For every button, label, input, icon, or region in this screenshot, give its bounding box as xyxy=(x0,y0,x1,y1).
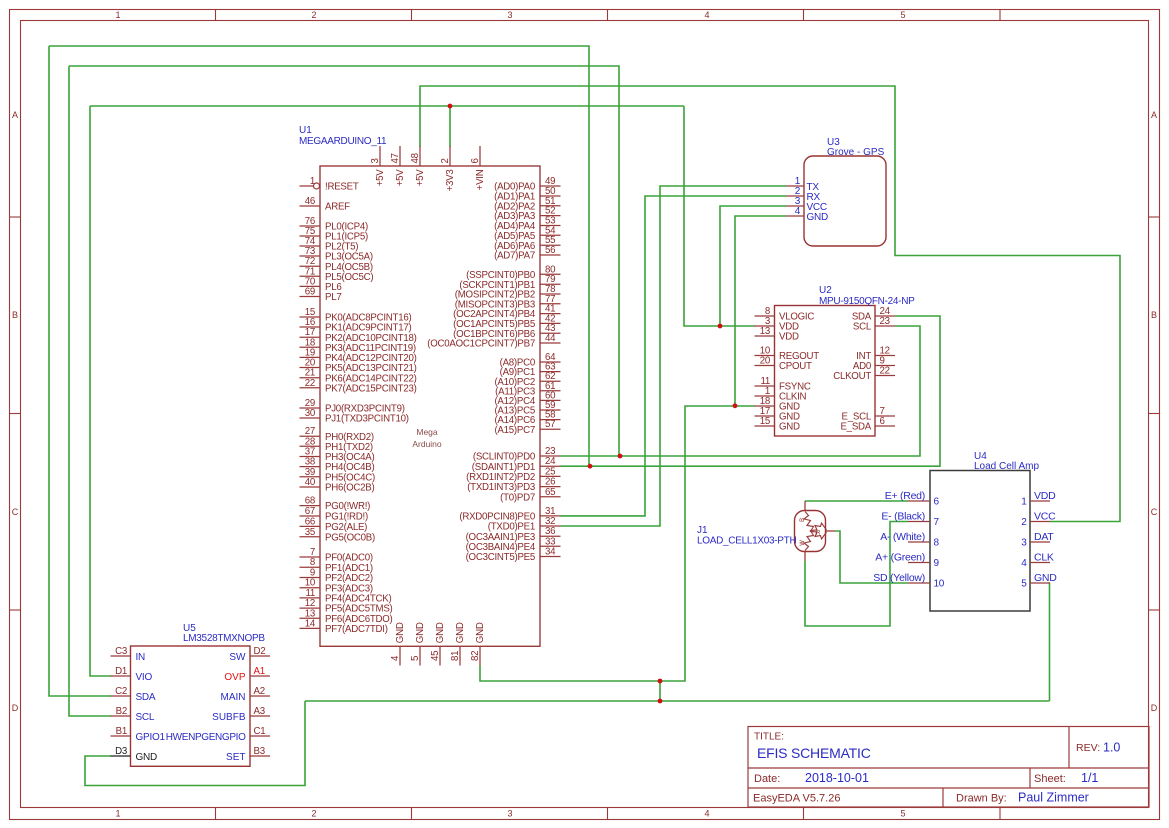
svg-text:66: 66 xyxy=(305,516,315,527)
svg-text:23: 23 xyxy=(880,316,890,327)
U3 pin 4 GND xyxy=(786,215,804,217)
svg-text:Load Cell Amp: Load Cell Amp xyxy=(974,461,1039,472)
U1 bottom pin 5 GND xyxy=(419,646,421,665)
U5 pin A2 MAIN xyxy=(250,695,270,697)
wire U1 pin82 GND xyxy=(480,666,660,682)
wire +3V3 to U2 VDD xyxy=(684,106,755,326)
U1 pin 73 PL3(OC5A) xyxy=(300,255,321,257)
svg-text:PL7: PL7 xyxy=(325,292,342,303)
wire net SDA rail xyxy=(49,46,589,466)
U2 pin 22 CLKOUT xyxy=(875,375,895,377)
svg-text:65: 65 xyxy=(545,487,555,498)
svg-text:45: 45 xyxy=(430,651,441,661)
U1 pin 9 PF2(ADC2) xyxy=(300,577,321,579)
U1 pin 8 PF1(ADC1) xyxy=(300,566,321,568)
svg-text:+3V3: +3V3 xyxy=(445,170,456,192)
U1 pin 28 PH1(TXD2) xyxy=(300,445,321,447)
U4 pin 8 A- (White) xyxy=(908,541,930,543)
svg-text:PG2(ALE): PG2(ALE) xyxy=(325,522,367,533)
regulator U5 LM3528TMXNOPB body xyxy=(131,646,251,766)
U1 pin 43 (OC1BPCINT6)PB6 xyxy=(540,332,561,334)
svg-text:C: C xyxy=(12,507,19,517)
svg-text:6: 6 xyxy=(470,158,481,163)
svg-text:VDD: VDD xyxy=(779,332,799,343)
U1 pin 72 PL4(OC5B) xyxy=(300,265,321,267)
wire SDA to U5 xyxy=(49,46,111,696)
U1 pin 75 PL1(ICP5) xyxy=(300,235,321,237)
svg-text:3: 3 xyxy=(370,158,381,163)
U1 pin 69 PL7 xyxy=(300,296,321,298)
U4 pin 2 VCC xyxy=(1030,521,1050,523)
svg-text:5: 5 xyxy=(900,10,905,20)
svg-text:PG1(!RD!): PG1(!RD!) xyxy=(325,512,368,523)
module U4 Load Cell Amp body xyxy=(930,471,1030,612)
svg-text:68: 68 xyxy=(305,496,315,507)
svg-text:4: 4 xyxy=(1021,558,1027,569)
svg-text:(OC3CINT5)PE5: (OC3CINT5)PE5 xyxy=(466,552,535,563)
wire net +5V xyxy=(420,86,1120,522)
U1 bottom pin 45 GND xyxy=(439,646,441,665)
U1 bottom pin 4 GND xyxy=(399,646,401,665)
svg-text:CLK: CLK xyxy=(1034,551,1054,563)
U1 pin 54 (AD5)PA5 xyxy=(540,234,561,236)
svg-text:4: 4 xyxy=(795,206,801,217)
U2 pin 1 CLKIN xyxy=(755,395,775,397)
J1 strain gauge zigzags xyxy=(804,512,827,540)
svg-text:PG0(!WR!): PG0(!WR!) xyxy=(325,501,370,512)
U1 pin 77 (MISOPCINT3)PB3 xyxy=(540,303,561,305)
svg-text:D3: D3 xyxy=(115,746,127,757)
svg-text:C1: C1 xyxy=(254,726,266,737)
junction dots xyxy=(448,104,453,109)
svg-text:A: A xyxy=(1151,110,1157,120)
svg-text:35: 35 xyxy=(305,527,315,538)
U1 pin 15 PK0(ADC8PCINT16) xyxy=(300,316,321,318)
svg-text:+VIN: +VIN xyxy=(475,169,486,190)
svg-text:U1: U1 xyxy=(299,125,312,136)
U1 pin 58 (A14)PC6 xyxy=(540,419,561,421)
U1 top pin 6 +VIN xyxy=(479,146,481,166)
U2 pin 7 E_SCL xyxy=(875,415,895,417)
U1 pin 65 (T0)PD7 xyxy=(540,496,561,498)
svg-text:SCL: SCL xyxy=(136,712,155,723)
svg-text:VDD: VDD xyxy=(1034,490,1056,502)
svg-text:D1: D1 xyxy=(115,666,127,677)
svg-text:Arduino: Arduino xyxy=(412,439,442,449)
wire +3V3 to U5 VIO xyxy=(90,106,111,676)
U1 pin 78 (MOSIPCINT2)PB2 xyxy=(540,293,561,295)
svg-text:CLKOUT: CLKOUT xyxy=(833,371,871,382)
wire +3V3 to U1 pin2 xyxy=(449,106,451,147)
svg-text:6: 6 xyxy=(880,416,885,427)
svg-text:57: 57 xyxy=(545,419,555,430)
svg-text:Mega: Mega xyxy=(416,427,438,437)
svg-text:82: 82 xyxy=(470,651,481,661)
U1 top pin 3 +5V xyxy=(379,146,381,166)
U3 pin 1 TX xyxy=(786,185,804,187)
U3 pin 2 RX xyxy=(786,195,804,197)
svg-text:GND: GND xyxy=(136,752,158,763)
op-amp U2 MPU-9150QFN-24-NP body xyxy=(775,306,876,437)
svg-text:Date:: Date: xyxy=(754,773,780,785)
svg-text:CPOUT: CPOUT xyxy=(779,361,812,372)
wire U3 RX to U1 PE0 xyxy=(561,196,787,516)
U1 pin 20 PK5(ADC13PCINT21) xyxy=(300,367,321,369)
U1 pin 52 (AD3)PA3 xyxy=(540,215,561,217)
svg-text:B: B xyxy=(12,310,18,320)
svg-text:Grove - GPS: Grove - GPS xyxy=(827,147,885,158)
svg-text:7: 7 xyxy=(934,517,940,528)
svg-text:D: D xyxy=(1151,703,1158,713)
svg-text:3: 3 xyxy=(507,10,512,20)
U5 pin D3 GND xyxy=(111,755,131,757)
U1 pin 64 (A8)PC0 xyxy=(540,361,561,363)
U1 pin 32 (TXD0)PE1 xyxy=(540,525,561,527)
U1 pin 16 PK1(ADC9PCINT17) xyxy=(300,326,321,328)
op-amp U1 MEGAARDUINO_11 body xyxy=(320,166,540,646)
svg-text:13: 13 xyxy=(760,326,770,337)
svg-text:Paul Zimmer: Paul Zimmer xyxy=(1018,791,1089,805)
svg-text:4: 4 xyxy=(704,809,709,819)
U5 pin B2 SCL xyxy=(111,715,131,717)
U1 pin 41 (OC2APCINT4)PB4 xyxy=(540,313,561,315)
svg-text:1: 1 xyxy=(1021,497,1027,508)
U1 pin 29 PJ0(RXD3PCINT9) xyxy=(300,407,321,409)
svg-text:OVP: OVP xyxy=(224,672,245,683)
wire U3 VCC to +3V3 xyxy=(720,206,786,326)
U1 pin 25 (RXD1INT2)PD2 xyxy=(540,475,561,477)
U5 pin B1 GPIO1 xyxy=(111,735,131,737)
U1 pin 22 PK7(ADC15PCINT23) xyxy=(300,387,321,389)
U1 pin 71 PL5(OC5C) xyxy=(300,275,321,277)
title block xyxy=(748,727,1149,808)
U1 pin 46 AREF xyxy=(300,205,321,207)
U1 pin 13 PF6(ADC6TDO) xyxy=(300,617,321,619)
svg-text:20: 20 xyxy=(760,356,771,367)
svg-text:69: 69 xyxy=(305,287,315,298)
svg-text:1: 1 xyxy=(115,10,120,20)
U1 pin 39 PH5(OC4C) xyxy=(300,476,321,478)
U5 pin C3 IN xyxy=(111,655,131,657)
U1 top pin 48 +5V xyxy=(419,146,421,166)
svg-text:5: 5 xyxy=(900,809,905,819)
U2 pin 12 INT xyxy=(875,355,895,357)
svg-text:J1: J1 xyxy=(697,525,708,536)
svg-text:GPIO1: GPIO1 xyxy=(136,732,166,743)
U1 pin 19 PK4(ADC12PCINT20) xyxy=(300,356,321,358)
svg-text:GND: GND xyxy=(435,622,446,643)
U1 pin 63 (A9)PC1 xyxy=(540,371,561,373)
J1 pin stubs xyxy=(804,501,806,511)
U1 pin 79 (SCKPCINT1)PB1 xyxy=(540,283,561,285)
U2 pin 3 VDD xyxy=(755,325,775,327)
svg-text:+5V: +5V xyxy=(395,169,406,187)
svg-text:34: 34 xyxy=(545,547,556,558)
U1 pin 51 (AD2)PA2 xyxy=(540,205,561,207)
svg-text:REV:: REV: xyxy=(1076,742,1100,754)
svg-text:(T0)PD7: (T0)PD7 xyxy=(500,492,535,503)
svg-text:LOAD_CELL1X03-PTH: LOAD_CELL1X03-PTH xyxy=(697,536,796,547)
U2 pin 18 GND xyxy=(755,405,775,407)
U3 pin 3 VCC xyxy=(786,205,804,207)
svg-text:15: 15 xyxy=(760,416,770,427)
U1 pin 14 PF7(ADC7TDI) xyxy=(300,627,321,629)
svg-text:30: 30 xyxy=(305,408,316,419)
svg-text:A- (White): A- (White) xyxy=(880,531,925,543)
U4 pin 9 A+ (Green) xyxy=(908,562,930,564)
U1 pin 40 PH6(OC2B) xyxy=(300,486,321,488)
svg-text:A+ (Green): A+ (Green) xyxy=(875,551,925,563)
svg-text:(OC0AOC1CPCINT7)PB7: (OC0AOC1CPCINT7)PB7 xyxy=(427,339,535,350)
U1 pin 33 (OC3BAIN4)PE4 xyxy=(540,545,561,547)
svg-text:(A15)PC7: (A15)PC7 xyxy=(494,425,535,436)
U1 pin 68 PG0(!WR!) xyxy=(300,505,321,507)
svg-text:C2: C2 xyxy=(115,686,127,697)
U1 pin 42 (OC1APCINT5)PB5 xyxy=(540,322,561,324)
svg-text:LM3528TMXNOPB: LM3528TMXNOPB xyxy=(183,633,265,644)
svg-text:67: 67 xyxy=(305,506,315,517)
svg-text:SDA: SDA xyxy=(136,692,156,703)
wire GND to U5 xyxy=(85,701,305,786)
svg-text:Drawn By:: Drawn By: xyxy=(956,793,1007,805)
svg-text:PF7(ADC7TDI): PF7(ADC7TDI) xyxy=(325,624,388,635)
U5 pin D2 SW xyxy=(250,655,270,657)
svg-text:DAT: DAT xyxy=(1034,531,1054,543)
U5 pin B3 SET xyxy=(250,755,270,757)
U1 pin 23 (SCLINT0)PD0 xyxy=(540,455,561,457)
svg-text:22: 22 xyxy=(305,378,315,389)
svg-text:4: 4 xyxy=(704,10,709,20)
svg-text:SUBFB: SUBFB xyxy=(212,712,246,723)
svg-text:PH6(OC2B): PH6(OC2B) xyxy=(325,483,374,494)
U1 pin 70 PL6 xyxy=(300,285,321,287)
U1 pin 35 PG5(OC0B) xyxy=(300,536,321,538)
U1 pin 44 (OC0AOC1CPCINT7)PB7 xyxy=(540,342,561,344)
U1 bottom pin 82 GND xyxy=(479,646,481,665)
svg-text:3: 3 xyxy=(1021,538,1027,549)
svg-text:40: 40 xyxy=(305,477,316,488)
svg-text:GND: GND xyxy=(415,622,426,643)
U4 pin 3 DAT xyxy=(1030,541,1050,543)
svg-text:46: 46 xyxy=(305,196,315,207)
svg-text:10: 10 xyxy=(934,579,945,590)
U1 top pin 47 +5V xyxy=(399,146,401,166)
U5 pin A1 OVP xyxy=(250,675,270,677)
U5 pin A3 SUBFB xyxy=(250,715,270,717)
U1 pin 36 (OC3AAIN1)PE3 xyxy=(540,535,561,537)
U1 pin 34 (OC3CINT5)PE5 xyxy=(540,556,561,558)
svg-text:A3: A3 xyxy=(254,706,265,717)
svg-text:1/1: 1/1 xyxy=(1081,771,1098,785)
svg-text:3: 3 xyxy=(507,809,512,819)
svg-text:22: 22 xyxy=(880,366,890,377)
U4 pin 5 GND xyxy=(1030,582,1050,584)
svg-text:8: 8 xyxy=(934,538,940,549)
U4 pin 7 E- (Black) xyxy=(908,521,930,523)
wire U2 GND to rail xyxy=(660,406,755,681)
svg-text:HWENPGENGPIO: HWENPGENGPIO xyxy=(166,732,246,743)
svg-text:47: 47 xyxy=(390,153,401,163)
svg-text:1: 1 xyxy=(115,809,120,819)
connector J1 LOAD_CELL1X03-PTH body xyxy=(795,511,826,552)
U1 pin 38 PH4(OC4B) xyxy=(300,466,321,468)
svg-text:MPU-9150QFN-24-NP: MPU-9150QFN-24-NP xyxy=(819,296,915,307)
svg-text:44: 44 xyxy=(545,333,556,344)
U1 pin 26 (TXD1INT3)PD3 xyxy=(540,486,561,488)
U1 pin 76 PL0(ICP4) xyxy=(300,225,321,227)
svg-text:SCL: SCL xyxy=(853,322,872,333)
U1 pin 30 PJ1(TXD3PCINT10) xyxy=(300,417,321,419)
svg-text:GND: GND xyxy=(395,622,406,643)
U1 pin 37 PH3(OC4A) xyxy=(300,456,321,458)
wire SCL to U5 xyxy=(69,66,111,716)
U2 pin 13 VDD xyxy=(755,335,775,337)
U1 pin 61 (A11)PC3 xyxy=(540,390,561,392)
svg-text:9: 9 xyxy=(934,558,940,569)
wire U3 GND down xyxy=(735,216,786,406)
svg-text:VCC: VCC xyxy=(1034,510,1056,522)
svg-text:GND: GND xyxy=(475,622,486,643)
svg-text:2: 2 xyxy=(311,809,316,819)
wire net SCL rail xyxy=(69,66,619,456)
svg-text:A1: A1 xyxy=(254,666,265,677)
svg-text:GND: GND xyxy=(455,622,466,643)
svg-text:EasyEDA V5.7.26: EasyEDA V5.7.26 xyxy=(753,793,840,805)
U1 pin 31 (RXD0PCIN8)PE0 xyxy=(540,515,561,517)
U1 pin 74 PL2(T5) xyxy=(300,245,321,247)
svg-text:2: 2 xyxy=(1021,517,1027,528)
svg-text:2: 2 xyxy=(311,10,316,20)
U1 pin 1 !RESET xyxy=(300,185,314,187)
svg-text:2018-10-01: 2018-10-01 xyxy=(805,771,869,785)
svg-text:1.0: 1.0 xyxy=(1103,741,1120,755)
svg-text:B3: B3 xyxy=(254,746,265,757)
svg-text:B2: B2 xyxy=(116,706,127,717)
U1 pin 21 PK6(ADC14PCINT22) xyxy=(300,377,321,379)
svg-text:5: 5 xyxy=(410,656,421,661)
wire J1 E+ to U4 pin6 xyxy=(805,500,908,502)
U1 pin 12 PF5(ADC5TMS) xyxy=(300,607,321,609)
U4 pin 4 CLK xyxy=(1030,562,1050,564)
U1 bottom pin 81 GND xyxy=(459,646,461,665)
U5 pin C2 SDA xyxy=(111,695,131,697)
U1 pin 49 (AD0)PA0 xyxy=(540,185,561,187)
wire SDA U1 PD1 to U2 xyxy=(561,316,941,466)
svg-text:C: C xyxy=(1151,507,1158,517)
svg-text:D: D xyxy=(12,703,19,713)
U1 pin 67 PG1(!RD!) xyxy=(300,515,321,517)
svg-text:(AD7)PA7: (AD7)PA7 xyxy=(494,251,535,262)
U2 pin 24 SDA xyxy=(875,315,895,317)
U1 pin 66 PG2(ALE) xyxy=(300,525,321,527)
U4 pin 1 VDD xyxy=(1030,500,1050,502)
svg-text:E- (Black): E- (Black) xyxy=(881,510,925,522)
U2 pin 17 GND xyxy=(755,415,775,417)
svg-text:IN: IN xyxy=(136,652,146,663)
svg-text:5: 5 xyxy=(1021,579,1027,590)
svg-text:E+ (Red): E+ (Red) xyxy=(885,490,925,502)
svg-text:PJ1(TXD3PCINT10): PJ1(TXD3PCINT10) xyxy=(325,414,409,425)
wire SCL U1 PD0 to U2 xyxy=(561,326,921,456)
svg-text:+5V: +5V xyxy=(415,169,426,187)
U1 pin 17 PK2(ADC10PCINT18) xyxy=(300,336,321,338)
svg-text:MEGAARDUINO_11: MEGAARDUINO_11 xyxy=(299,136,387,147)
U1 pin 59 (A13)PC5 xyxy=(540,409,561,411)
U1 pin 18 PK3(ADC11PCINT19) xyxy=(300,346,321,348)
U2 pin 15 GND xyxy=(755,425,775,427)
svg-text:81: 81 xyxy=(450,651,461,661)
svg-text:B1: B1 xyxy=(116,726,127,737)
wire U4 GND drop xyxy=(1049,583,1052,701)
svg-text:SD (Yellow): SD (Yellow) xyxy=(873,572,925,584)
svg-text:U2: U2 xyxy=(819,285,832,296)
wire GND rail xyxy=(305,700,1050,702)
U5 pin D1 VIO xyxy=(111,675,131,677)
U1 pin 80 (SSPCINT0)PB0 xyxy=(540,273,561,275)
svg-text:1: 1 xyxy=(310,176,315,187)
svg-text:AREF: AREF xyxy=(325,202,350,213)
svg-text:GND: GND xyxy=(807,212,829,223)
U1 pin 27 PH0(RXD2) xyxy=(300,435,321,437)
svg-text:4: 4 xyxy=(390,655,401,661)
U2 pin 10 REGOUT xyxy=(755,355,775,357)
svg-text:EFIS SCHEMATIC: EFIS SCHEMATIC xyxy=(757,745,871,761)
svg-text:48: 48 xyxy=(410,153,421,163)
svg-text:6: 6 xyxy=(934,497,940,508)
U1 pin 24 (SDAINT1)PD1 xyxy=(540,465,561,467)
svg-text:Sheet:: Sheet: xyxy=(1034,773,1066,785)
U1 pin 10 PF3(ADC3) xyxy=(300,587,321,589)
svg-text:MAIN: MAIN xyxy=(221,692,246,703)
U5 pin C1 HWENPGENGPIO xyxy=(250,735,270,737)
U2 pin 11 FSYNC xyxy=(755,385,775,387)
U2 pin 8 VLOGIC xyxy=(755,315,775,317)
U1 top pin 2 +3V3 xyxy=(449,146,451,166)
svg-text:56: 56 xyxy=(545,245,555,256)
svg-text:2: 2 xyxy=(440,158,451,163)
svg-text:B: B xyxy=(800,518,806,522)
U4 pin 6 E+ (Red) xyxy=(908,500,930,502)
svg-text:C3: C3 xyxy=(115,646,127,657)
svg-text:W: W xyxy=(800,540,806,546)
wire net +3V3 rail xyxy=(90,105,684,107)
U1 pin 62 (A10)PC2 xyxy=(540,380,561,382)
U1 pin 11 PF4(ADC4TCK) xyxy=(300,597,321,599)
U1 pin 57 (A15)PC7 xyxy=(540,428,561,430)
U2 pin 20 CPOUT xyxy=(755,365,775,367)
svg-text:PG5(OC0B): PG5(OC0B) xyxy=(325,532,375,543)
svg-text:TITLE:: TITLE: xyxy=(754,732,784,743)
svg-text:B: B xyxy=(1151,310,1157,320)
svg-text:+5V: +5V xyxy=(375,169,386,187)
svg-text:A: A xyxy=(12,110,18,120)
svg-text:SW: SW xyxy=(229,652,246,663)
svg-text:E_SDA: E_SDA xyxy=(840,422,871,433)
wire J1 SD to U4 pin10 xyxy=(835,531,908,583)
U1 pin 50 (AD1)PA1 xyxy=(540,195,561,197)
U1 pin 55 (AD6)PA6 xyxy=(540,244,561,246)
svg-text:GND: GND xyxy=(1034,572,1057,584)
wire junction link xyxy=(659,681,661,701)
U2 pin 6 E_SDA xyxy=(875,425,895,427)
U2 pin 9 AD0 xyxy=(875,365,895,367)
svg-text:VIO: VIO xyxy=(136,672,153,683)
U2 pin 23 SCL xyxy=(875,325,895,327)
svg-text:A2: A2 xyxy=(254,686,265,697)
U1 pin 7 PF0(ADC0) xyxy=(300,556,321,558)
svg-text:D2: D2 xyxy=(254,646,266,657)
U1 pin 56 (AD7)PA7 xyxy=(540,254,561,256)
